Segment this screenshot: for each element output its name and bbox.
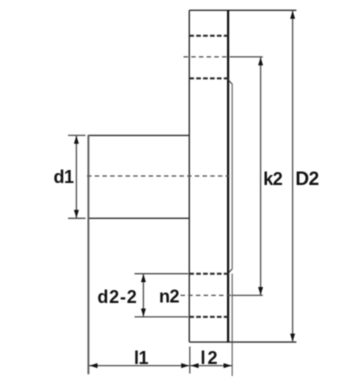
raised face top hook	[228, 80, 232, 85]
k2 dimension line	[260, 57, 262, 295]
l2 right extension line	[231, 274, 233, 376]
svg-text:d1: d1	[53, 167, 73, 187]
k2 up arrow	[258, 57, 263, 65]
d1 dimension line	[75, 135, 77, 218]
k2 top extension line	[233, 56, 263, 58]
bottom bolt hole upper hidden edge (bold dashed)	[189, 273, 229, 275]
svg-text:l1: l1	[134, 348, 149, 368]
k2 down arrow	[258, 287, 263, 295]
d2-2 dimension line	[142, 274, 144, 317]
svg-text:d2-2: d2-2	[97, 287, 137, 307]
d2-2 down arrow	[141, 309, 146, 317]
top bolt hole upper hidden edge (bold dashed)	[189, 35, 229, 37]
hub left edge and l1 left extension line (gray)	[87, 135, 89, 374]
flange disc top edge with D2 top extension line	[189, 9, 296, 11]
l1/l2 middle extension line	[189, 347, 191, 374]
d2-2 upper extension tick	[135, 273, 189, 275]
flange disc bottom edge with D2 bottom extension line	[189, 341, 296, 343]
flange disc right face (thick)	[227, 10, 229, 342]
raised face edge line	[231, 84, 233, 269]
main centerline of hub (dashed)	[87, 175, 229, 177]
l2 right arrow	[224, 363, 232, 368]
svg-text:k2: k2	[263, 169, 283, 189]
l1 dimension line	[89, 365, 189, 367]
D2 down arrow	[290, 334, 295, 342]
svg-text:l2: l2	[200, 348, 219, 368]
svg-text:D2: D2	[295, 169, 318, 190]
d2-2 up arrow	[141, 274, 146, 282]
d1 top extension tick	[68, 134, 86, 136]
flange disc left edge	[188, 10, 190, 342]
D2 dimension line	[292, 10, 294, 342]
l1 left arrow	[90, 363, 98, 368]
bottom bolt hole lower hidden edge (bold dashed)	[189, 316, 229, 318]
d1 up arrow	[74, 136, 79, 144]
hub top edge	[88, 134, 189, 136]
svg-text:n2: n2	[159, 287, 179, 307]
raised face bottom hook	[228, 269, 232, 274]
d1 down arrow	[74, 210, 79, 218]
hub bottom edge	[88, 217, 189, 219]
bottom bolt hole centerline (dashed)	[181, 294, 233, 296]
l2 left arrow	[191, 363, 199, 368]
D2 up arrow	[290, 11, 295, 19]
l1 right arrow	[181, 363, 189, 368]
k2 bottom extension line	[233, 294, 263, 296]
l2 dimension line	[190, 365, 232, 367]
top bolt hole centerline (dashed)	[184, 56, 233, 58]
d1 bottom extension tick	[68, 217, 86, 219]
top bolt hole lower hidden edge (bold dashed)	[189, 77, 229, 79]
d2-2 lower extension tick	[135, 316, 189, 318]
